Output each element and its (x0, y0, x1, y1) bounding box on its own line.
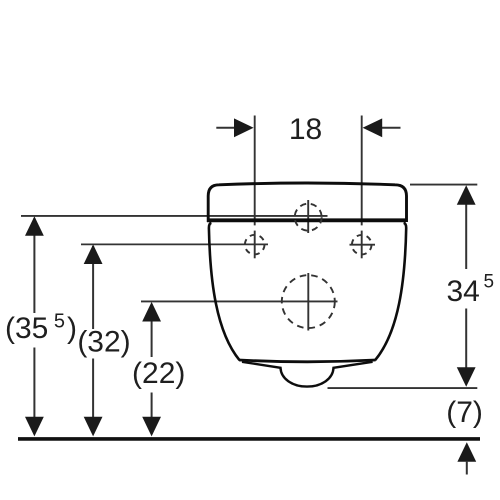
dimension line 32 (92, 246, 94, 329)
reference line C (outlet level, 22) (141, 300, 338, 302)
svg-text:(22): (22) (132, 357, 185, 390)
svg-text:(32): (32) (77, 326, 130, 359)
svg-text:(7): (7) (446, 396, 483, 429)
arrow 18 left (points right) (234, 118, 254, 137)
arrow 35.5 up (25, 216, 44, 236)
reference line A (water supply level, 35.5) (21, 215, 328, 217)
arrow 32 down (84, 417, 103, 437)
extension line right (through right fixing hole) (361, 116, 363, 226)
arrow 22 up (142, 302, 161, 322)
arrow 35.5 down (25, 417, 44, 437)
bowl sides (209, 223, 406, 360)
dimension 18 right shaft (381, 127, 400, 129)
svg-text:18: 18 (289, 113, 322, 146)
reference line D (top of ceramic, 34.5) (410, 184, 477, 186)
svg-text:34: 34 (447, 275, 480, 308)
seam line (207, 218, 406, 222)
left fixing hole (dashed circle) (245, 235, 265, 255)
arrow 18 right (points left) (363, 118, 383, 137)
reference line B (fixing holes level, 32) (81, 243, 268, 245)
top hole (dashed circle) (295, 204, 322, 231)
right fixing hole crosshair horizontal (350, 244, 376, 246)
dimension line 22 (151, 304, 153, 357)
arrow 32 up (84, 244, 103, 264)
dimension 18 left shaft (216, 127, 235, 129)
outlet dome (242, 362, 373, 387)
dimension line 34.5 (465, 203, 467, 269)
dimension 7 tail (466, 461, 468, 475)
svg-text:(35 5): (35 5) (5, 310, 77, 344)
reference line E (outlet bottom, 7) (328, 387, 478, 389)
extension line left (through left fixing hole) (254, 116, 256, 226)
arrow 34.5 down (457, 367, 476, 387)
right fixing hole (dashed circle) (352, 235, 372, 255)
top hole crosshair vertical (307, 200, 309, 233)
outlet hole (dashed circle) (282, 275, 335, 328)
svg-text:5: 5 (484, 272, 495, 293)
dimension line 35.5 (33, 218, 35, 313)
toilet upper outline (208, 183, 406, 222)
bowl bottom edge (239, 360, 376, 362)
floor line (18, 437, 480, 441)
dimension 7 lower arrow (below floor, pointing up) (457, 442, 476, 462)
arrow 34.5 up (457, 185, 476, 205)
arrow 22 down (142, 417, 161, 437)
outlet hole crosshair vertical (307, 273, 309, 331)
